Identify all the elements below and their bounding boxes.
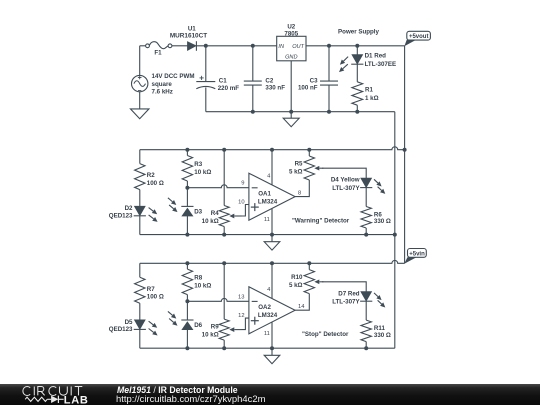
photodiode D3 [181,205,193,207]
D7 light arrow 1 [374,293,378,297]
svg-text:R8: R8 [194,275,202,282]
wire output pin 8 [295,180,309,197]
node R5 top [307,148,311,152]
svg-text:12: 12 [238,313,244,319]
node D6 bottom [185,346,189,350]
svg-text:"Stop" Detector: "Stop" Detector [302,331,349,338]
wire top rail (stop) [140,260,405,263]
node U2 GND [289,110,293,114]
wire R4 wiper to pin 10 [242,205,249,217]
D2 light arrow 2 [149,215,154,219]
potentiometer R9 10 kOhm [219,319,229,340]
ground (warning) [264,242,280,250]
regulator U2 7805 [277,36,306,61]
D6 light arrow 1 [168,311,173,315]
wire D6 to bottom rail [186,330,188,349]
wire D5 to bottom rail [139,329,141,348]
svg-text:LTL-307Y: LTL-307Y [332,185,360,192]
svg-text:330 Ω: 330 Ω [374,218,391,225]
wire R11 to bottom rail [365,342,367,349]
svg-text:100 Ω: 100 Ω [147,294,164,301]
node C2 top [251,44,255,48]
node C1 top [204,44,208,48]
diode U1 MUR1610CT [188,42,197,51]
resistor R7 100 Ohm [135,277,145,303]
svg-text:10 kΩ: 10 kΩ [202,218,219,225]
node C3 bottom [327,110,331,114]
op-amp OA1 LM324 [249,173,295,220]
svg-text:IN: IN [278,44,285,50]
svg-text:OUT: OUT [292,44,304,50]
resistor R8 10 kOhm [182,269,192,295]
wire D2 to bottom rail [139,216,141,235]
LED D1 Red LTL-307EE [352,55,363,64]
resistor R3 10 kOhm [182,156,192,182]
wire pin 4 (OA2) [271,263,273,298]
svg-text:+5vin: +5vin [409,252,425,258]
LED D2 QED123 (IR emitter) [135,206,146,215]
ground (stop) [264,355,280,363]
svg-text:R10: R10 [291,274,303,281]
D7 light arrow 2 [378,300,382,304]
wire to R3 [186,150,188,156]
svg-text:330 Ω: 330 Ω [374,332,391,339]
svg-text:Power Supply: Power Supply [338,29,379,36]
ground (source) [130,109,149,119]
node divider junction (stop) [185,299,189,303]
D5 light arrow 2 [149,329,154,333]
footer bar [0,384,540,405]
svg-text:LAB: LAB [64,395,89,405]
R4 wiper arrow [234,215,241,217]
LED D4 Yellow LTL-307Y [361,178,372,187]
node +5vout flag [404,40,415,46]
svg-text:U1: U1 [188,25,196,32]
wire source top [139,46,141,76]
svg-text:R3: R3 [194,161,202,168]
svg-text:OA1: OA1 [258,191,271,198]
wire wiper to D4 [322,168,366,178]
node op-amp gnd (OA1) [270,233,274,237]
junction gnd / warning bottom rail [393,233,397,237]
resistor R2 100 Ohm [135,164,145,190]
R10 wiper arrow [319,281,323,283]
fuse F1 [146,44,150,48]
svg-text:5 kΩ: 5 kΩ [289,169,303,176]
svg-text:QED123: QED123 [109,213,133,220]
svg-text:220 mF: 220 mF [218,85,240,92]
node R9 top [222,261,226,265]
capacitor C2 330 nF [252,46,254,81]
svg-text:13: 13 [238,294,244,300]
wire R9 to bottom rail [223,340,225,348]
wire wiper to D7 [322,282,366,292]
svg-text:100 nF: 100 nF [298,84,318,91]
svg-text:10 kΩ: 10 kΩ [202,332,219,339]
svg-text:4: 4 [267,174,271,180]
wire D4 to R6 [365,188,367,207]
ground vertical wire (right) [394,112,396,349]
capacitor C1 220 mF [205,46,207,82]
wire fuse to U1 [172,45,188,47]
svg-text:1 kΩ: 1 kΩ [365,95,379,102]
node C2 bottom [251,110,255,114]
wire to R10 [308,263,310,269]
resistor R11 330 Ohm [361,320,371,342]
svg-text:MUR1610CT: MUR1610CT [170,33,207,40]
svg-text:C1: C1 [219,78,227,85]
svg-text:5 kΩ: 5 kΩ [289,282,303,289]
svg-text:"Warning" Detector: "Warning" Detector [292,218,350,225]
node R4 top [222,148,226,152]
wire to R5 [308,150,310,156]
node R3 top [185,148,189,152]
svg-text:100 Ω: 100 Ω [147,180,164,187]
R5 wiper arrow [319,167,323,169]
wire U2 OUT rail [306,45,405,47]
svg-text:11: 11 [264,217,270,223]
svg-text:9: 9 [241,181,244,187]
svg-text:R7: R7 [147,286,155,293]
potentiometer R4 10 kOhm [219,206,229,227]
node D1 top [355,44,359,48]
svg-text:R1: R1 [365,87,373,94]
wire to fuse [140,45,146,47]
D1 light arrow 1 [343,57,348,62]
LED D5 QED123 (IR emitter) [135,320,146,329]
wire R9 wiper to pin 12 [242,318,249,330]
node R4 bottom [222,233,226,237]
svg-text:D4 Yellow: D4 Yellow [331,177,360,184]
wire R7 to D5 [139,303,141,320]
svg-text:QED123: QED123 [109,326,133,333]
node op-amp gnd (OA2) [270,346,274,350]
svg-text:LM324: LM324 [258,312,278,319]
svg-text:10: 10 [238,199,244,205]
wire U1 to U2 IN [196,45,276,47]
node R9 bottom [222,346,226,350]
D4 light arrow 2 [378,187,382,191]
wire pin 4 (OA1) [271,150,273,185]
capacitor C3 100 nF [328,46,330,81]
D5 light arrow 1 [149,321,154,325]
svg-text:10 kΩ: 10 kΩ [194,283,211,290]
D3 light arrow 2 [169,205,174,209]
svg-text:R5: R5 [295,161,303,168]
svg-text:7805: 7805 [284,30,298,37]
svg-text:R2: R2 [147,172,155,179]
wire to R7 [139,263,141,277]
svg-text:LTL-307EE: LTL-307EE [365,61,397,68]
svg-text:C2: C2 [265,77,273,84]
svg-text:330 nF: 330 nF [265,84,285,91]
wire to R9 [223,263,225,319]
svg-text:D1 Red: D1 Red [365,53,387,60]
potentiometer R5 5 kOhm [304,156,314,180]
node op-amp V+ (OA1) [270,148,274,152]
wire to R2 [139,150,141,164]
svg-text:11: 11 [264,331,270,337]
svg-text:7.6 kHz: 7.6 kHz [152,88,173,95]
resistor R1 1 kOhm [352,82,363,105]
wire D7 to R11 [365,301,367,320]
node +5vin flag [404,257,416,264]
LED D7 Red LTL-307Y [361,292,372,301]
svg-text:OA2: OA2 [258,304,271,311]
wire R4 to bottom rail [223,227,225,235]
wire D3 to bottom rail [186,216,188,235]
svg-text:D2: D2 [125,205,133,212]
op-amp OA2 LM324 [249,287,295,334]
node R1 bottom [355,110,359,114]
svg-text:D7 Red: D7 Red [338,290,360,297]
photodiode D6 [181,319,193,321]
wire U2 GND down [290,61,292,112]
wire R3 to D3 [186,181,188,206]
svg-text:8: 8 [298,191,301,197]
svg-text:+5vout: +5vout [409,34,429,40]
svg-text:square: square [152,81,173,88]
wire top rail (warning) [140,147,405,150]
wire D1 to R1 [356,64,358,82]
node op-amp V+ (OA2) [270,261,274,265]
+5v vertical wire (right) [404,46,406,263]
ground stub [271,235,273,242]
wire R8 to D6 [186,295,188,320]
wire source bottom [139,92,141,109]
power ground rail [206,111,395,113]
node R6 bottom [364,233,368,237]
wire pin 11 (OA2) [271,322,273,348]
wire to D1 [356,46,358,55]
svg-text:D3: D3 [194,208,202,215]
wire junction to pin 13 [187,298,249,301]
svg-text:D5: D5 [125,319,133,326]
svg-text:GND: GND [285,55,297,61]
svg-text:R9: R9 [211,324,219,331]
voltage source V1 14V DCC PWM [132,75,148,91]
node R11 bottom [364,346,368,350]
junction +5v / warning rail [403,148,407,152]
ground (power supply) [283,118,299,127]
ground stub [290,112,292,119]
wire bottom rail (warning) [140,234,395,236]
svg-text:D6: D6 [194,322,202,329]
wire to R4 [223,150,225,206]
node divider junction (warning) [185,186,189,190]
wire to R8 [186,263,188,269]
svg-text:C3: C3 [310,77,318,84]
node C3 top [327,44,331,48]
svg-text:4: 4 [267,287,271,293]
wire output pin 14 [295,294,309,311]
CircuitLab logo [15,384,125,405]
svg-text:LM324: LM324 [258,199,278,206]
D2 light arrow 1 [149,208,154,212]
node R8 top [185,261,189,265]
svg-text:U2: U2 [287,23,295,30]
wire junction to pin 9 [187,185,249,188]
resistor R6 330 Ohm [361,207,371,229]
node R10 top [307,261,311,265]
potentiometer R10 5 kOhm [304,270,314,294]
wire pin 11 (OA1) [271,208,273,234]
node D3 bottom [185,233,189,237]
D6 light arrow 2 [169,319,174,323]
D1 light arrow 2 [343,64,348,69]
wire bottom rail (stop) [140,347,395,349]
wire R6 to bottom rail [365,228,367,235]
D3 light arrow 1 [168,198,173,202]
R9 wiper arrow [234,329,241,331]
svg-text:10 kΩ: 10 kΩ [194,169,211,176]
svg-text:F1: F1 [154,50,162,57]
svg-text:R4: R4 [211,210,219,217]
wire R2 to D2 [139,190,141,207]
svg-text:14V DCC PWM: 14V DCC PWM [152,73,195,80]
D4 light arrow 1 [374,179,378,183]
ground stub [271,348,273,355]
wire R1 to ground rail [356,105,358,112]
svg-text:LTL-307Y: LTL-307Y [332,299,360,306]
svg-text:14: 14 [298,304,305,310]
